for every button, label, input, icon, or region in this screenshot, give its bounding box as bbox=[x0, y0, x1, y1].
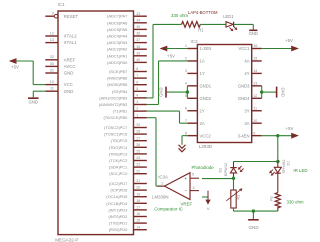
svg-text:14: 14 bbox=[253, 69, 257, 73]
svg-text:(TMS)PC3: (TMS)PC3 bbox=[109, 151, 128, 156]
svg-text:(ADC0)PA0: (ADC0)PA0 bbox=[107, 60, 128, 65]
svg-text:39: 39 bbox=[136, 51, 140, 55]
svg-text:(ADC5)PA5: (ADC5)PA5 bbox=[107, 27, 128, 32]
svg-text:LM339N: LM339N bbox=[152, 195, 169, 200]
svg-text:15: 15 bbox=[253, 57, 257, 61]
svg-text:27: 27 bbox=[136, 136, 140, 140]
svg-text:24: 24 bbox=[136, 156, 140, 160]
svg-text:(ADC1)PA1: (ADC1)PA1 bbox=[107, 53, 127, 58]
svg-text:SFH482: SFH482 bbox=[282, 160, 286, 174]
svg-text:(ADC7)PA7: (ADC7)PA7 bbox=[107, 14, 127, 19]
svg-text:4: 4 bbox=[193, 186, 195, 190]
svg-text:(ADC2)PA2: (ADC2)PA2 bbox=[107, 47, 127, 52]
svg-text:10: 10 bbox=[50, 80, 54, 84]
svg-text:20: 20 bbox=[136, 186, 140, 190]
svg-text:AREF: AREF bbox=[64, 57, 76, 62]
svg-text:7: 7 bbox=[185, 119, 187, 123]
svg-text:AVCC: AVCC bbox=[64, 64, 76, 69]
svg-text:5: 5 bbox=[192, 173, 194, 177]
svg-text:VCC2: VCC2 bbox=[200, 133, 212, 138]
svg-text:4Y: 4Y bbox=[244, 71, 249, 76]
svg-text:5: 5 bbox=[185, 94, 187, 98]
svg-text:15: 15 bbox=[136, 219, 140, 223]
svg-text:(SDA)PC1: (SDA)PC1 bbox=[109, 165, 127, 170]
svg-text:11: 11 bbox=[253, 106, 257, 110]
svg-text:GND2: GND2 bbox=[200, 96, 212, 101]
svg-text:13: 13 bbox=[253, 81, 257, 85]
svg-text:34: 34 bbox=[136, 18, 140, 22]
svg-text:2: 2 bbox=[161, 181, 163, 185]
svg-text:(ICP)PD6: (ICP)PD6 bbox=[110, 188, 128, 193]
svg-text:(AIN0/INT2)PB2: (AIN0/INT2)PB2 bbox=[99, 102, 127, 107]
svg-text:+: + bbox=[184, 176, 187, 181]
svg-text:13: 13 bbox=[50, 38, 54, 42]
svg-text:IR LED: IR LED bbox=[293, 168, 307, 173]
svg-text:17: 17 bbox=[136, 206, 140, 210]
svg-text:26: 26 bbox=[136, 143, 140, 147]
svg-text:R1: R1 bbox=[198, 28, 204, 33]
svg-text:(INT0)PD2: (INT0)PD2 bbox=[108, 214, 127, 219]
svg-text:(ADC4)PA4: (ADC4)PA4 bbox=[107, 34, 128, 39]
svg-text:5: 5 bbox=[136, 87, 138, 91]
svg-text:6: 6 bbox=[185, 106, 187, 110]
svg-text:28: 28 bbox=[136, 130, 140, 134]
svg-text:330 ohm: 330 ohm bbox=[171, 13, 188, 18]
svg-text:VREF: VREF bbox=[181, 201, 193, 206]
svg-text:(SS)PB4: (SS)PB4 bbox=[112, 89, 128, 94]
svg-text:4: 4 bbox=[136, 94, 138, 98]
svg-text:23: 23 bbox=[136, 163, 140, 167]
svg-text:−: − bbox=[184, 188, 187, 193]
svg-text:R2: R2 bbox=[270, 196, 274, 201]
svg-text:3-4EN: 3-4EN bbox=[238, 133, 250, 138]
svg-text:(MOSI)PB5: (MOSI)PB5 bbox=[107, 82, 128, 87]
svg-text:16: 16 bbox=[136, 212, 140, 216]
svg-text:(ADC6)PA6: (ADC6)PA6 bbox=[107, 20, 128, 25]
svg-text:GND4: GND4 bbox=[238, 96, 250, 101]
svg-text:(T0/XCK)PB0: (T0/XCK)PB0 bbox=[103, 115, 128, 120]
svg-text:1: 1 bbox=[136, 113, 138, 117]
svg-text:3A: 3A bbox=[244, 121, 249, 126]
svg-text:GND: GND bbox=[248, 225, 259, 230]
svg-text:12: 12 bbox=[253, 94, 257, 98]
svg-text:Photodiode: Photodiode bbox=[192, 165, 215, 170]
svg-text:38: 38 bbox=[136, 45, 140, 49]
svg-text:2: 2 bbox=[136, 107, 138, 111]
svg-text:GND3: GND3 bbox=[238, 83, 250, 88]
svg-text:18: 18 bbox=[136, 199, 140, 203]
svg-text:14: 14 bbox=[136, 225, 140, 229]
svg-text:9: 9 bbox=[52, 12, 54, 16]
svg-text:19: 19 bbox=[136, 192, 140, 196]
svg-text:(INT1)PD3: (INT1)PD3 bbox=[108, 207, 128, 212]
svg-text:3Y: 3Y bbox=[244, 108, 249, 113]
svg-text:11: 11 bbox=[50, 87, 54, 91]
svg-text:R3: R3 bbox=[237, 195, 241, 200]
svg-text:1: 1 bbox=[185, 44, 187, 48]
svg-text:BPW42: BPW42 bbox=[224, 163, 228, 176]
svg-text:D1: D1 bbox=[287, 161, 291, 166]
svg-text:(SCL)PC0: (SCL)PC0 bbox=[109, 171, 128, 176]
svg-text:16: 16 bbox=[253, 44, 257, 48]
svg-text:40: 40 bbox=[136, 58, 140, 62]
svg-text:(T1)PB1: (T1)PB1 bbox=[113, 109, 128, 114]
svg-text:L293D: L293D bbox=[199, 144, 213, 149]
svg-text:(AIN1/OC0)PB3: (AIN1/OC0)PB3 bbox=[99, 95, 128, 100]
svg-text:(MISO)PB6: (MISO)PB6 bbox=[107, 76, 128, 81]
svg-text:3: 3 bbox=[136, 100, 138, 104]
svg-text:MEGA32-P: MEGA32-P bbox=[55, 237, 78, 242]
svg-text:1A: 1A bbox=[200, 59, 205, 64]
svg-text:(OC1B)PD4: (OC1B)PD4 bbox=[106, 201, 128, 206]
svg-text:10: 10 bbox=[253, 119, 257, 123]
svg-text:(OC1A)PD5: (OC1A)PD5 bbox=[106, 194, 128, 199]
svg-text:LED1: LED1 bbox=[223, 14, 234, 19]
svg-text:IC3A: IC3A bbox=[158, 174, 168, 179]
svg-text:LAP4-BOTTOM: LAP4-BOTTOM bbox=[188, 10, 218, 15]
svg-text:(SCK)PB7: (SCK)PB7 bbox=[109, 69, 127, 74]
svg-text:VCC: VCC bbox=[64, 82, 73, 87]
svg-text:V-: V- bbox=[207, 206, 211, 211]
svg-text:3: 3 bbox=[185, 69, 187, 73]
svg-text:GND: GND bbox=[249, 31, 258, 36]
svg-text:(TDO)PC4: (TDO)PC4 bbox=[109, 145, 128, 150]
svg-text:XTAL1: XTAL1 bbox=[64, 40, 77, 45]
svg-text:25: 25 bbox=[136, 150, 140, 154]
svg-text:6: 6 bbox=[136, 80, 138, 84]
svg-text:30: 30 bbox=[50, 62, 54, 66]
svg-text:8: 8 bbox=[136, 67, 138, 71]
svg-text:1Y: 1Y bbox=[200, 71, 205, 76]
svg-text:+5V: +5V bbox=[167, 54, 175, 59]
svg-text:GND1: GND1 bbox=[200, 83, 212, 88]
svg-text:IC2: IC2 bbox=[191, 39, 199, 44]
svg-text:1-2EN: 1-2EN bbox=[200, 46, 212, 51]
svg-text:2A: 2A bbox=[200, 121, 205, 126]
svg-text:7: 7 bbox=[136, 74, 138, 78]
svg-text:IC1: IC1 bbox=[58, 2, 66, 7]
svg-text:+5V: +5V bbox=[285, 38, 293, 43]
svg-text:GND: GND bbox=[64, 89, 74, 94]
svg-text:29: 29 bbox=[136, 123, 140, 127]
svg-text:22: 22 bbox=[136, 169, 140, 173]
svg-text:GND: GND bbox=[64, 71, 74, 76]
svg-text:D2: D2 bbox=[219, 168, 223, 173]
svg-text:21: 21 bbox=[136, 179, 140, 183]
svg-text:9: 9 bbox=[253, 131, 255, 135]
svg-text:VCC1: VCC1 bbox=[238, 46, 250, 51]
svg-text:4A: 4A bbox=[244, 59, 249, 64]
svg-text:(TXD)PD1: (TXD)PD1 bbox=[109, 221, 127, 226]
svg-text:GND: GND bbox=[159, 87, 164, 96]
svg-text:37: 37 bbox=[136, 38, 140, 42]
svg-text:(RXD)PD0: (RXD)PD0 bbox=[109, 227, 128, 232]
svg-text:(TOSC1)PC6: (TOSC1)PC6 bbox=[104, 132, 128, 137]
svg-text:330 ohm: 330 ohm bbox=[287, 199, 304, 204]
svg-text:31: 31 bbox=[50, 68, 54, 72]
svg-text:12: 12 bbox=[50, 31, 54, 35]
svg-text:35: 35 bbox=[136, 25, 140, 29]
svg-text:4: 4 bbox=[185, 81, 187, 85]
svg-text:GND: GND bbox=[281, 87, 286, 96]
svg-text:GND: GND bbox=[29, 99, 38, 104]
svg-text:Comparator IC: Comparator IC bbox=[154, 207, 183, 212]
svg-text:(OC2)PD7: (OC2)PD7 bbox=[109, 181, 127, 186]
svg-text:33: 33 bbox=[136, 12, 140, 16]
svg-text:(TCK)PC2: (TCK)PC2 bbox=[109, 158, 127, 163]
svg-text:(TOSC2)PC7: (TOSC2)PC7 bbox=[104, 125, 127, 130]
svg-text:2Y: 2Y bbox=[200, 108, 205, 113]
svg-text:+5V: +5V bbox=[286, 126, 294, 131]
svg-text:32: 32 bbox=[50, 55, 54, 59]
svg-text:+5V: +5V bbox=[11, 65, 19, 70]
svg-text:XTAL2: XTAL2 bbox=[64, 34, 77, 39]
svg-text:2: 2 bbox=[185, 57, 187, 61]
svg-text:(TDI)PC5: (TDI)PC5 bbox=[111, 138, 128, 143]
svg-text:(ADC3)PA3: (ADC3)PA3 bbox=[107, 40, 128, 45]
svg-text:36: 36 bbox=[136, 32, 140, 36]
svg-text:RESET: RESET bbox=[64, 14, 79, 19]
svg-text:8: 8 bbox=[185, 131, 187, 135]
